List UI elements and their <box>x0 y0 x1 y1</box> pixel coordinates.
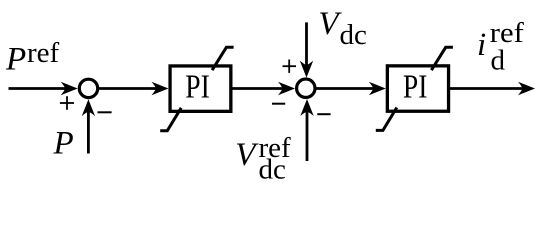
plus sign at S2 (Vdc input) <box>283 60 297 73</box>
svg-text:V: V <box>235 137 259 173</box>
minus sign at S1 (P input) <box>98 111 112 113</box>
wire: input from left <box>9 87 67 90</box>
saturation mark bottom-left of PI box 1 <box>160 108 181 131</box>
wire: Vdc ref input from below <box>306 106 309 161</box>
wire: output from PI box 2 <box>450 87 524 90</box>
summing junction S1 <box>79 79 97 97</box>
PI box 2 <box>387 66 448 111</box>
wire: summing junction S1 to PI box 1 <box>99 87 157 90</box>
summing junction S2 <box>297 79 315 97</box>
wire: PI box 1 to summing junction S2 <box>232 87 284 90</box>
svg-text:PI: PI <box>403 68 428 105</box>
svg-text:d: d <box>491 45 506 77</box>
svg-text:ref: ref <box>27 37 60 69</box>
wire: Vdc input from above <box>305 22 308 71</box>
svg-text:dc: dc <box>259 154 286 186</box>
arrowhead: P up into S1 <box>82 99 95 116</box>
saturation mark top-right of PI box 2 <box>431 47 453 70</box>
svg-text:P: P <box>5 42 26 78</box>
arrowhead: output tip <box>518 82 535 95</box>
wire: P input from below <box>87 106 90 154</box>
arrowhead: into S2 <box>278 82 295 95</box>
saturation mark top-right of PI box 1 <box>212 47 234 70</box>
svg-text:P: P <box>53 125 74 161</box>
wire: summing junction S2 to PI box 2 <box>317 87 375 90</box>
minus sign at S2 (Vdcref input) <box>317 113 330 115</box>
saturation mark bottom-left of PI box 2 <box>376 108 397 131</box>
arrowhead: Vdcref up into S2 <box>300 99 313 116</box>
arrowhead: into PI box 1 <box>152 82 169 95</box>
svg-text:i: i <box>477 27 486 63</box>
arrowhead: into PI box 2 <box>369 82 386 95</box>
arrowhead: input into S1 <box>61 82 78 95</box>
svg-text:PI: PI <box>185 68 210 105</box>
svg-text:dc: dc <box>340 19 367 51</box>
arrowhead: Vdc down into S2 <box>300 61 313 78</box>
plus sign at S1 <box>60 96 74 110</box>
PI box 1 <box>170 66 231 111</box>
minus sign at S2 (left input) <box>272 103 285 105</box>
